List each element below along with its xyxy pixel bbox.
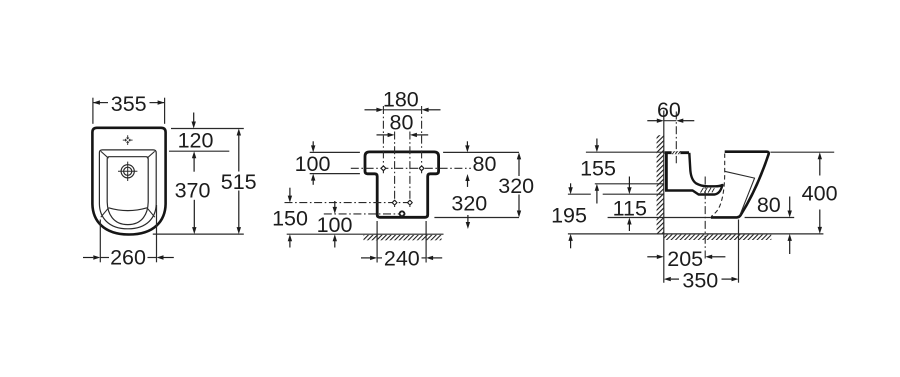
svg-text:355: 355 (111, 92, 147, 116)
svg-text:260: 260 (110, 246, 146, 270)
dim 205 line and arrows (647, 255, 725, 259)
dim 155 arrows (595, 139, 599, 204)
svg-text:400: 400 (802, 181, 838, 205)
dim 100 lower arrows (333, 201, 337, 248)
dim 370 line and arrows (192, 200, 196, 234)
bidet bottom extension right (745, 217, 795, 219)
svg-text:100: 100 (317, 213, 353, 237)
dim 60 line and arrows (647, 119, 694, 123)
right stem bottom extension line (434, 217, 519, 219)
dim 195 arrows (568, 183, 572, 248)
dim 350 line and arrows (664, 277, 739, 281)
floor hatching (364, 235, 442, 240)
dim 355 arrows (93, 100, 165, 104)
T-shaped fixing outline (365, 152, 439, 217)
dim 355 extension lines (93, 98, 165, 124)
dim 320 inner arrows (465, 174, 470, 229)
rim chamfer top-right (147, 151, 155, 158)
svg-text:515: 515 (221, 170, 257, 194)
svg-text:320: 320 (451, 191, 487, 215)
top extension line left (586, 151, 664, 153)
centerline horizontal upper holes (351, 167, 471, 169)
top extension line right (770, 151, 834, 153)
dim 320 outer line and arrows (517, 152, 521, 217)
drain centerline (704, 177, 706, 260)
drain marker (399, 210, 406, 217)
centerline horizontal drain (324, 213, 406, 215)
wall hatching (657, 135, 664, 234)
rim chamfer bottom-right (147, 208, 155, 217)
rim top extension line (169, 150, 229, 152)
fixing hole diamond lower-right (408, 200, 413, 205)
svg-text:320: 320 (498, 174, 534, 198)
centerline vertical 180 right (421, 106, 423, 174)
centerline vertical 180 left (382, 106, 384, 174)
centerline horizontal lower holes (285, 202, 413, 204)
rim section hatch notch (672, 151, 681, 154)
dim 400 line and arrows (818, 152, 822, 234)
floor line (287, 233, 444, 235)
svg-text:120: 120 (178, 129, 214, 153)
dim 80 top arrows (377, 133, 429, 137)
dim 260 arrows (83, 255, 174, 259)
wall edge line (663, 111, 665, 283)
basin floor front curve (109, 208, 147, 211)
rim outer line (99, 150, 156, 229)
tap hole (118, 162, 137, 181)
bidet bottom reference line left (608, 217, 711, 219)
dim 100 upper extension lines (310, 152, 360, 173)
dim 150 arrows (288, 188, 292, 248)
svg-text:150: 150 (272, 207, 308, 231)
svg-text:370: 370 (175, 179, 211, 203)
centerline vertical 80 left (394, 132, 396, 208)
basin section hatch ticks (701, 188, 715, 193)
rim chamfer top-left (101, 151, 109, 158)
floor hatching (664, 235, 771, 240)
svg-text:240: 240 (384, 247, 420, 271)
svg-text:350: 350 (682, 269, 718, 293)
dim 115 arrows (627, 177, 631, 232)
dim 240 arrows (361, 256, 442, 260)
svg-text:80: 80 (757, 193, 781, 217)
svg-text:195: 195 (551, 203, 587, 227)
dim 80 right arrows (465, 141, 469, 152)
svg-text:115: 115 (613, 196, 647, 220)
svg-text:80: 80 (390, 110, 414, 134)
dim 120 arrows (192, 113, 197, 172)
fixing hole diamond upper-left (381, 166, 386, 171)
rim chamfer bottom-left (101, 208, 109, 217)
bidet underside and basin section (665, 153, 722, 195)
svg-text:155: 155 (580, 157, 616, 181)
basin interior bottom reference line (595, 183, 664, 185)
bidet outer outline (92, 128, 165, 235)
bidet top and front face (711, 152, 769, 218)
dim 260 extension lines (100, 205, 156, 262)
dim 350 extension line (738, 220, 740, 283)
dim 80 side arrows (788, 197, 792, 255)
dim 180 line and arrows (365, 108, 441, 112)
bidet back edge (665, 152, 668, 190)
rim section top bar (665, 151, 689, 154)
fixing hole marker (123, 135, 133, 145)
fixing hole diamond lower-left (392, 200, 397, 205)
dim 240 extension lines (377, 221, 426, 263)
top edge extension line (171, 128, 244, 130)
centerline vertical 80 right (409, 132, 411, 208)
svg-text:80: 80 (473, 152, 497, 176)
basin underside reference line (568, 193, 591, 195)
front chamfer lines (725, 171, 755, 215)
bottom reference line (153, 233, 244, 235)
svg-text:100: 100 (295, 152, 331, 176)
floor line (568, 233, 824, 235)
dim 100 upper arrows (311, 141, 315, 185)
rim inner line (107, 157, 148, 225)
hidden underside dashed curve (711, 154, 725, 217)
svg-text:180: 180 (383, 87, 419, 111)
inlet centerline (675, 112, 677, 164)
right top extension line (443, 151, 519, 153)
dim 515 line and arrows (237, 129, 241, 235)
fixing hole diamond upper-right (419, 166, 424, 171)
svg-text:60: 60 (657, 98, 681, 122)
